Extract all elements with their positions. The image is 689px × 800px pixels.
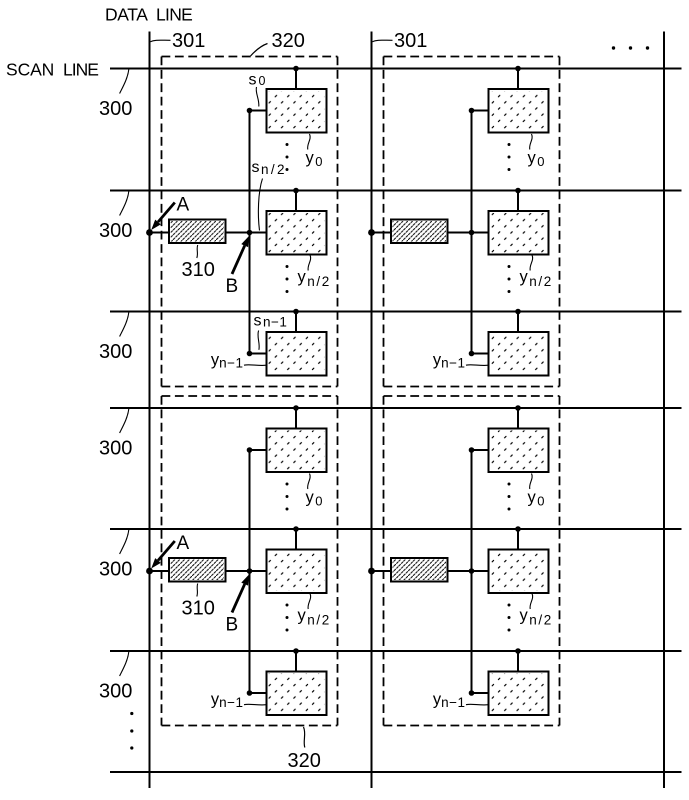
data line 301 (vertical #3) (663, 32, 665, 789)
leader for sn/2 (258, 179, 262, 231)
ellipsis dots below pixel box (col 2 row 2) (508, 265, 511, 293)
resistor 310 (col 1 row 2) (169, 220, 226, 244)
node: junction on scan line (col 1 row 3) (293, 309, 299, 315)
pixel element box (col 2 row 2) (489, 211, 549, 255)
node: select junction (col 2 row 6) (469, 690, 475, 696)
wire: select line (col 2, group 1) (471, 111, 473, 354)
svg-text:320: 320 (272, 30, 305, 52)
node A: junction on data line (col 1 row 2) (146, 229, 153, 236)
wire: stub scan line to pixel box (col 2 row 4) (517, 408, 519, 430)
leader for yn-1 (col 1 row 3) (244, 364, 267, 367)
node: junction on scan line (col 2 row 1) (515, 66, 521, 72)
leader for yn/2 (col 2 row 5) (530, 594, 533, 610)
scan line 300 (row 2) (110, 190, 682, 192)
wire: stub scan line to pixel box (col 2 row 3) (517, 312, 519, 334)
wire: select stub (col 2 row 6) (472, 692, 490, 694)
dashed block boundary 320 (col 1, group 1) (162, 57, 338, 387)
node: select junction (col 2 row 2) (469, 230, 475, 236)
ellipsis dots below pixel box (col 2 row 4) (508, 483, 511, 511)
svg-text:A: A (177, 533, 190, 554)
wire: select stub (col 1 row 1) (250, 110, 268, 112)
wire: data line to select node (col 1 row 2) (150, 232, 250, 234)
svg-text:310: 310 (182, 598, 215, 620)
svg-text:300: 300 (99, 559, 132, 581)
pixel element box (col 1 row 1) (267, 89, 327, 133)
wire: select line (col 2, group 2) (471, 450, 473, 693)
leader for yn/2 (col 1 row 2) (308, 255, 311, 271)
arrow B -> select node (y=529.0) (232, 575, 249, 613)
node: select junction (col 1 row 1) (247, 108, 253, 114)
node A: junction on data line (col 2 row 2) (368, 229, 375, 236)
svg-text:LINE: LINE (63, 59, 98, 79)
label SCAN LINE (6, 59, 98, 79)
node: select junction (col 2 row 4) (469, 447, 475, 453)
svg-text:310: 310 (182, 259, 215, 281)
svg-text:A: A (177, 195, 190, 216)
ellipsis dots below pixel box (col 1 row 1) (286, 143, 289, 171)
pixel element box (col 1 row 3) (267, 332, 327, 376)
svg-text:300: 300 (99, 438, 132, 460)
wire: stub scan line to pixel box (col 1 row 5) (295, 529, 297, 551)
svg-text:DATA: DATA (105, 5, 148, 25)
leader for y0 (col 1 row 1) (308, 134, 311, 150)
wire: select stub (col 2 row 3) (472, 353, 490, 355)
leader for 301 (col 1) (151, 40, 171, 42)
svg-text:300: 300 (99, 98, 132, 120)
pixel element box (col 2 row 6) (489, 672, 549, 716)
pixel element box (col 2 row 1) (489, 89, 549, 133)
ellipsis dots (bottom left, more rows) (130, 712, 133, 750)
wire: select stub (col 1 row 4) (250, 449, 268, 451)
wire: stub scan line to pixel box (col 2 row 2) (517, 191, 519, 213)
leader for y0 (col 1 row 4) (308, 474, 311, 490)
pixel element box (col 1 row 2) (267, 211, 327, 255)
scan line 300 (row 1) (110, 68, 682, 70)
node: select junction (col 1 row 5) (247, 568, 253, 574)
ellipsis dots below pixel box (col 1 row 4) (286, 483, 289, 511)
pixel element box (col 2 row 5) (489, 550, 549, 594)
node: select junction (col 1 row 2) (247, 230, 253, 236)
wire: select stub (col 1 row 5) (250, 570, 268, 572)
data line 301 (vertical #1) (149, 32, 151, 789)
leader for 310 (y=190.5) (196, 245, 199, 258)
pixel element box (col 2 row 4) (489, 429, 549, 473)
leader for 300 (row 6) (120, 652, 129, 676)
wire: data line to select node (col 2 row 2) (372, 232, 472, 234)
wire: stub scan line to pixel box (col 2 row 6) (517, 651, 519, 673)
label DATA LINE (105, 5, 192, 25)
svg-text:300: 300 (99, 681, 132, 703)
ellipsis dots below pixel box (col 2 row 5) (508, 604, 511, 632)
wire: stub scan line to pixel box (col 2 row 1) (517, 69, 519, 91)
node: junction on scan line (col 2 row 6) (515, 648, 521, 654)
leader for 320 (top) (251, 44, 268, 57)
svg-text:sn−1: sn−1 (254, 312, 288, 329)
node: junction on scan line (col 2 row 5) (515, 526, 521, 532)
node: junction on scan line (col 1 row 2) (293, 188, 299, 194)
node: junction on scan line (col 2 row 2) (515, 188, 521, 194)
node: select junction (col 1 row 6) (247, 690, 253, 696)
arrow B -> select node (y=190.5) (232, 236, 249, 274)
leader for 301 (col 2) (373, 40, 393, 42)
resistor 310 (col 1 row 5) (169, 558, 226, 582)
ellipsis dots below pixel box (col 1 row 5) (286, 604, 289, 632)
node: select junction (col 1 row 4) (247, 447, 253, 453)
leader for 300 (row 4) (120, 409, 129, 433)
svg-text:300: 300 (99, 341, 132, 363)
leader for 300 (row 3) (120, 312, 129, 336)
wire: select line (col 1, group 1) (249, 111, 251, 354)
ellipsis dots below pixel box (col 2 row 1) (508, 143, 511, 171)
leader for y0 (col 2 row 4) (530, 474, 533, 490)
pixel element box (col 1 row 4) (267, 429, 327, 473)
node: select junction (col 2 row 1) (469, 108, 475, 114)
data line 301 (vertical #2) (371, 32, 373, 789)
dashed block boundary 320 (col 2, group 2) (384, 396, 560, 726)
node: junction on scan line (col 2 row 4) (515, 405, 521, 411)
svg-text:LINE: LINE (156, 5, 192, 25)
node A: junction on data line (col 1 row 5) (146, 568, 153, 575)
wire: select line (col 1, group 2) (249, 450, 251, 693)
scan line 300 (row 3) (110, 311, 682, 313)
scan line 300 (row 4) (110, 407, 682, 409)
svg-text:SCAN: SCAN (6, 59, 54, 79)
wire: select stub (col 1 row 6) (250, 692, 268, 694)
svg-text:B: B (226, 615, 239, 636)
leader for sn-1 (258, 331, 259, 350)
leader for 300 (row 2) (120, 191, 129, 215)
wire: select stub (col 2 row 5) (472, 570, 490, 572)
wire: stub scan line to pixel box (col 1 row 4) (295, 408, 297, 430)
node: select junction (col 1 row 3) (247, 351, 253, 357)
wire: data line to select node (col 2 row 5) (372, 570, 472, 572)
node: junction on scan line (col 1 row 1) (293, 66, 299, 72)
node: junction on scan line (col 1 row 6) (293, 648, 299, 654)
pixel element box (col 1 row 6) (267, 672, 327, 716)
svg-text:B: B (226, 276, 239, 297)
arrow A -> data line node (y=529.0) (151, 541, 175, 569)
wire: stub scan line to pixel box (col 1 row 6) (295, 651, 297, 673)
dashed block boundary 320 (col 2, group 1) (384, 57, 560, 387)
wire: stub scan line to pixel box (col 2 row 5) (517, 529, 519, 551)
node: junction on scan line (col 2 row 3) (515, 309, 521, 315)
leader for 300 (row 1) (120, 69, 129, 93)
node: select junction (col 2 row 3) (469, 351, 475, 357)
wire: select stub (col 2 row 2) (472, 232, 490, 234)
dashed block boundary 320 (col 1, group 2) (162, 396, 338, 726)
pixel element box (col 1 row 5) (267, 550, 327, 594)
leader for y0 (col 2 row 1) (530, 134, 533, 150)
node: select junction (col 2 row 5) (469, 568, 475, 574)
svg-text:300: 300 (99, 220, 132, 242)
pixel element box (col 2 row 3) (489, 332, 549, 376)
wire: stub scan line to pixel box (col 1 row 1) (295, 69, 297, 91)
ellipsis dots below pixel box (col 1 row 2) (286, 265, 289, 293)
wire: stub scan line to pixel box (col 1 row 2) (295, 191, 297, 213)
ellipsis dots (top right, more columns) (612, 46, 649, 49)
arrow A -> data line node (y=190.5) (151, 203, 175, 231)
scan line 300 (row 7) (110, 771, 682, 773)
svg-text:301: 301 (172, 30, 205, 52)
wire: data line to select node (col 1 row 5) (150, 570, 250, 572)
svg-text:301: 301 (394, 30, 427, 52)
leader for yn-1 (col 2 row 3) (466, 364, 489, 367)
wire: stub scan line to pixel box (col 1 row 3) (295, 312, 297, 334)
resistor 310 (col 2 row 2) (391, 220, 448, 244)
node A: junction on data line (col 2 row 5) (368, 568, 375, 575)
resistor 310 (col 2 row 5) (391, 558, 448, 582)
wire: select stub (col 2 row 1) (472, 110, 490, 112)
scan line 300 (row 5) (110, 528, 682, 530)
leader for s0 (256, 87, 259, 107)
node: junction on scan line (col 1 row 4) (293, 405, 299, 411)
leader for yn-1 (col 1 row 6) (244, 703, 267, 706)
leader for 320 (bottom) (304, 727, 305, 748)
leader for 300 (row 5) (120, 530, 129, 554)
leader for yn-1 (col 2 row 6) (466, 703, 489, 706)
node: junction on scan line (col 1 row 5) (293, 526, 299, 532)
scan line 300 (row 6) (110, 650, 682, 652)
leader for yn/2 (col 2 row 2) (530, 255, 533, 271)
leader for yn/2 (col 1 row 5) (308, 594, 311, 610)
wire: select stub (col 2 row 4) (472, 449, 490, 451)
svg-text:sn/2: sn/2 (252, 159, 287, 177)
svg-text:320: 320 (288, 750, 321, 772)
leader for 310 (y=529.0) (196, 584, 199, 597)
wire: select stub (col 1 row 3) (250, 353, 268, 355)
wire: select stub (col 1 row 2) (250, 232, 268, 234)
